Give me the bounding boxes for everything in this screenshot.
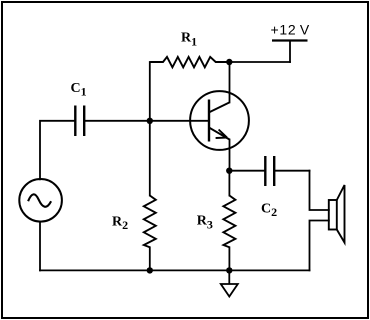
wire: right drop to speaker top lead (310, 171, 329, 210)
svg-text:C2: C2 (261, 202, 277, 220)
wire: R2 bottom to rail (149, 247, 151, 270)
wire: C2 right plate to right drop (274, 170, 309, 172)
wire: emitter node to R3 top (228, 171, 230, 196)
wire: C1 right lead to base node (84, 120, 150, 122)
wire: emitter down to node (229, 140, 231, 171)
node: C1 / base / R1 / R2 junction (147, 118, 153, 124)
wire: +12V drop vertical (289, 41, 291, 63)
+12V supply bar (272, 39, 308, 41)
wire: speaker bottom lead to rail (310, 221, 329, 271)
ac source V1 (19, 179, 62, 222)
resistor R3 (223, 196, 235, 248)
transistor Q1 (190, 91, 249, 150)
wire: vertical R1 left leg down to base node (149, 62, 151, 121)
resistor R1 (150, 57, 229, 67)
node: R3 / ground / bottom rail junction (226, 267, 232, 273)
resistor R2 (144, 196, 156, 248)
capacitor C2 (265, 156, 274, 186)
wire: R1 right to +12V drop (229, 61, 290, 63)
wire: base node down to R2 top (149, 121, 151, 196)
node: emitter / R3 / C2 junction (226, 168, 232, 174)
svg-text:R2: R2 (112, 214, 128, 232)
capacitor C1 (75, 106, 84, 137)
wire: base node to transistor base (150, 120, 209, 122)
wire: C1 left lead to source top corner (40, 121, 75, 180)
wire: source bottom to bottom rail corner (39, 222, 41, 271)
wire: emitter node to C2 left plate (229, 170, 265, 172)
ground (221, 270, 238, 296)
speaker LS1 (329, 185, 345, 243)
node: R2 / bottom rail junction (147, 267, 153, 273)
wire: collector to top node (229, 62, 231, 102)
wire: bottom ground rail (40, 269, 310, 271)
svg-text:+12 V: +12 V (271, 22, 310, 38)
wire: R3 bottom to rail (228, 247, 230, 270)
node: R1 / collector / +12V junction (226, 59, 232, 65)
